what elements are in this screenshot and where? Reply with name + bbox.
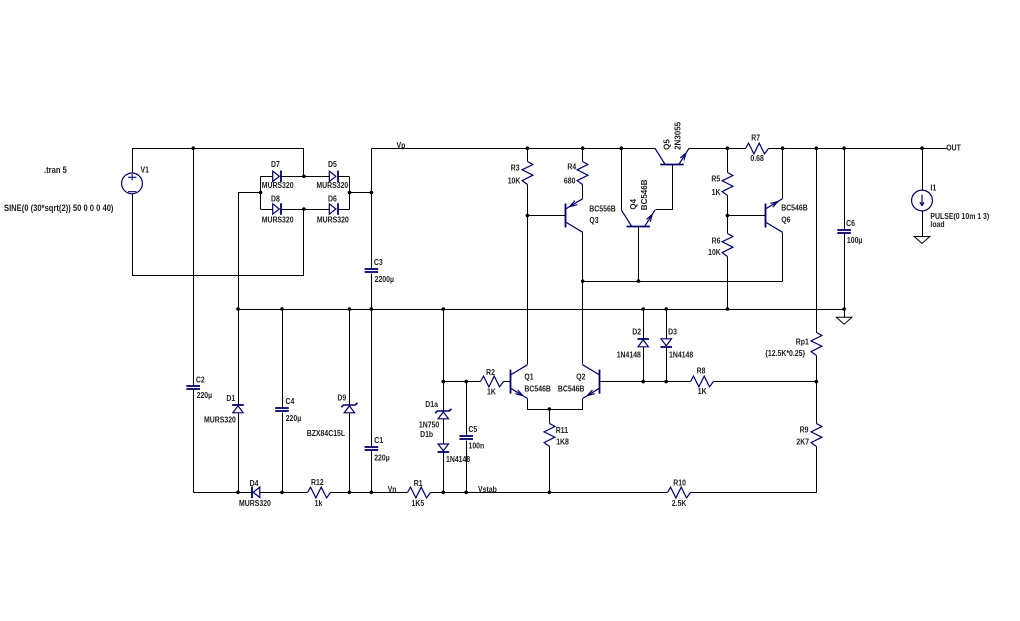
wire R9 bottom lead to bottom wire [691, 447, 817, 493]
svg-text:D6: D6 [328, 194, 337, 204]
diode D6 [329, 203, 338, 215]
diode D3 [660, 339, 672, 347]
diode D1b [438, 444, 450, 452]
wire D2 bottom lead [643, 347, 645, 382]
wire Vp vertical to C3 [371, 149, 373, 269]
capacitor C1 [365, 447, 379, 450]
junction mid rail C6 [842, 307, 846, 311]
wire D9 bottom lead [349, 414, 351, 493]
bridge left vertical [260, 177, 262, 210]
junction R5 at rail [726, 146, 730, 150]
junction mid rail D2 [641, 307, 645, 311]
svg-text:BC546B: BC546B [524, 384, 551, 394]
bridge right vertical [349, 177, 351, 210]
wire Rp1 bottom lead [816, 356, 818, 382]
svg-text:220µ: 220µ [374, 453, 390, 463]
svg-text:1K5: 1K5 [412, 498, 425, 508]
junction bridge bottom mid [302, 207, 306, 211]
wire C4 bottom lead [282, 413, 284, 493]
svg-text:100n: 100n [469, 441, 485, 451]
svg-text:1K: 1K [698, 387, 707, 397]
wire C2 top lead [193, 149, 195, 386]
transistor Q2 [583, 365, 600, 399]
wire between D1a and D1b [443, 419, 445, 445]
svg-text:220µ: 220µ [286, 414, 302, 424]
wire D1b bottom lead [443, 453, 445, 493]
bridge top rail middle segment [282, 176, 330, 178]
junction mid rail D9 [348, 307, 352, 311]
junction bottom D9 [348, 491, 352, 495]
junction Q6 base node [726, 214, 730, 218]
wire Q4 base lead [638, 227, 640, 282]
junction D2 at feedback wire [641, 380, 645, 384]
svg-text:MURS320: MURS320 [262, 215, 294, 225]
svg-text:R7: R7 [751, 133, 760, 143]
bridge top rail left segment [261, 176, 273, 178]
junction R4 at Vp rail [581, 146, 585, 150]
junction I1 at rail [920, 146, 924, 150]
diode D2 [637, 339, 649, 347]
junction mid rail C3/C1 [370, 307, 374, 311]
transistor Q6 [766, 199, 783, 233]
svg-text:Q4: Q4 [629, 198, 638, 209]
wire C5 bottom lead [466, 441, 468, 493]
wire C2 bottom lead [193, 390, 195, 493]
wire mid ground rail [239, 309, 845, 311]
resistor R4 [577, 162, 588, 185]
svg-text:load: load [930, 220, 945, 230]
wire R5 bottom lead [727, 196, 729, 216]
wire R8 to divider tap [714, 381, 817, 383]
wire bottom R1 to R10 [431, 492, 668, 494]
svg-text:1N4148: 1N4148 [617, 350, 641, 360]
svg-text:10K: 10K [708, 247, 721, 257]
resistor Rp1 [811, 333, 822, 356]
svg-text:D1a: D1a [425, 399, 438, 409]
svg-text:R6: R6 [712, 236, 721, 246]
wire Q2 base to R8 [600, 381, 691, 383]
transistor Q5 2N3055 [655, 149, 689, 165]
resistor R11 [544, 424, 555, 447]
wire Q6 base [728, 215, 766, 217]
wire bridge positive to Vp vertical [350, 192, 372, 194]
junction Q3 collector / Q2 collector [581, 279, 585, 283]
wire C1 bottom lead [371, 451, 373, 493]
wire D3 bottom lead [666, 348, 668, 382]
ground below I1 [914, 237, 930, 244]
svg-text:Q2: Q2 [576, 372, 585, 382]
svg-text:R5: R5 [711, 174, 720, 184]
wire Q4 emitter to Q5 base [656, 165, 673, 210]
junction C6 at rail [842, 146, 846, 150]
junction Q4 base [637, 279, 641, 283]
wire R6 bottom lead [727, 257, 729, 310]
svg-text:10K: 10K [508, 176, 521, 186]
wire D2 top lead [643, 310, 645, 339]
resistor R6 [722, 234, 733, 257]
junction mid rail D1 [236, 307, 240, 311]
wire Vp rail to Q5 collector [372, 148, 656, 150]
diode D4 [252, 487, 260, 499]
V1 plus sign [128, 174, 136, 180]
junction Q3 base tap [526, 214, 530, 218]
svg-text:Vn: Vn [388, 485, 397, 495]
wire bottom D4 to R12 [260, 492, 308, 494]
svg-text:BC546B: BC546B [640, 179, 649, 210]
svg-text:SINE(0 (30*sqrt(2)) 50 0 0 0 4: SINE(0 (30*sqrt(2)) 50 0 0 0 40) [4, 204, 114, 214]
svg-text:Q6: Q6 [781, 215, 790, 225]
svg-text:C1: C1 [374, 436, 383, 446]
svg-text:D7: D7 [271, 159, 280, 169]
wire C1 top lead [371, 310, 373, 447]
svg-text:D3: D3 [668, 327, 677, 337]
wire D1 bottom lead [238, 414, 240, 493]
wire reference node to R2 [444, 381, 481, 383]
wire Q4 collector lead [621, 149, 623, 210]
wire C5 top lead [466, 382, 468, 436]
voltage source V1 circle [122, 173, 143, 194]
wire R4 bottom to Q3 emitter [582, 185, 584, 199]
svg-text:D8: D8 [271, 194, 280, 204]
svg-text:D2: D2 [632, 327, 641, 337]
wire D9 top lead [349, 310, 351, 405]
svg-text:R8: R8 [697, 366, 706, 376]
resistor R10 [668, 487, 691, 498]
wire Q3 base [528, 215, 566, 217]
wire D1 top lead [238, 310, 240, 405]
svg-text:R3: R3 [511, 163, 520, 173]
svg-text:220µ: 220µ [197, 390, 213, 400]
junction divider tap [815, 380, 819, 384]
junction bottom C5 [464, 491, 468, 495]
junction emitter common node [548, 407, 552, 411]
wire R11 bottom lead [549, 447, 551, 493]
svg-text:Rp1: Rp1 [796, 337, 809, 347]
wire R6 top lead [727, 216, 729, 234]
svg-text:680: 680 [564, 176, 576, 186]
svg-text:2N3055: 2N3055 [674, 121, 683, 150]
junction D3 at feedback wire [664, 380, 668, 384]
svg-text:BC556B: BC556B [589, 204, 616, 214]
diode D7 [273, 171, 281, 183]
svg-text:C4: C4 [286, 397, 296, 407]
wire C3 to mid rail [371, 274, 373, 310]
junction mid rail C4 [280, 307, 284, 311]
wire Q6 emitter up to rail [782, 149, 784, 199]
wire R3 bottom to Q1 collector [527, 185, 529, 365]
wire I1 top lead [922, 149, 924, 191]
capacitor C6 [837, 230, 851, 233]
wire Rp1 top lead [816, 149, 818, 333]
svg-text:I1: I1 [930, 183, 936, 193]
svg-text:C5: C5 [468, 425, 477, 435]
wire I1 bottom lead [922, 211, 924, 237]
svg-text:0.68: 0.68 [750, 154, 763, 164]
junction mid rail R6 [726, 307, 730, 311]
wire C6 bottom lead [844, 234, 846, 310]
svg-text:1k: 1k [315, 498, 323, 508]
wire bottom R12 to R1 [331, 492, 408, 494]
ground at mid rail [836, 317, 852, 324]
wire C6 top lead [844, 149, 846, 230]
svg-text:{12.5K*0.25}: {12.5K*0.25} [765, 348, 805, 358]
capacitor C4 [275, 408, 289, 411]
wire R4 top lead [582, 149, 584, 162]
svg-text:MURS320: MURS320 [262, 181, 294, 191]
wire V1 top to bridge top mid [133, 149, 304, 177]
wire R3 top lead [527, 149, 529, 162]
svg-text:V1: V1 [141, 165, 149, 175]
svg-text:R11: R11 [556, 426, 568, 436]
wire zener stack top lead [443, 310, 445, 411]
junction bridge top mid [302, 175, 306, 179]
junction bottom R11 [548, 491, 552, 495]
wire Q6 collector down to darlington drive [782, 233, 784, 282]
capacitor C2 [186, 386, 200, 389]
svg-text:D4: D4 [250, 479, 260, 489]
svg-text:1K8: 1K8 [556, 437, 569, 447]
diode D1 [232, 405, 244, 413]
svg-text:R2: R2 [486, 368, 495, 378]
diode D5 [329, 171, 338, 183]
svg-text:D1b: D1b [420, 430, 433, 440]
transistor Q3 PNP [566, 199, 583, 233]
svg-text:BC546B: BC546B [781, 203, 808, 213]
junction Q4 collector at Vp rail [620, 146, 624, 150]
junction bottom D1b [442, 491, 446, 495]
svg-text:MURS320: MURS320 [317, 215, 349, 225]
wire ground stub [844, 310, 846, 318]
svg-text:2200µ: 2200µ [375, 274, 394, 284]
wire R5 top lead [727, 149, 729, 173]
zener diode D1a [435, 409, 451, 419]
wire C4 top lead [282, 310, 284, 408]
svg-text:1K: 1K [487, 387, 496, 397]
svg-text:MURS320: MURS320 [239, 498, 271, 508]
wire R11 top lead [549, 410, 551, 424]
svg-text:MURS320: MURS320 [316, 181, 348, 191]
junction mid rail zener stack [442, 307, 446, 311]
junction bottom C1 [370, 491, 374, 495]
svg-text:1K: 1K [712, 187, 721, 197]
bridge bottom rail left segment [261, 209, 273, 211]
svg-text:Q5: Q5 [663, 139, 672, 150]
resistor R7 [746, 143, 769, 154]
resistor R9 [811, 424, 822, 447]
junction bottom D1 [236, 491, 240, 495]
junction R3 at Vp rail [526, 146, 530, 150]
bridge bottom rail middle segment [282, 209, 330, 211]
junction bottom C4 [280, 491, 284, 495]
transistor Q4 [621, 210, 655, 227]
junction C2 tap on V1 wire [191, 146, 195, 150]
svg-text:MURS320: MURS320 [204, 415, 236, 425]
resistor R1 [408, 487, 431, 498]
bridge bottom rail right segment [338, 209, 350, 211]
wire Q2 collector vertical [582, 282, 584, 365]
svg-text:OUT: OUT [946, 143, 961, 153]
capacitor C5 [459, 436, 473, 439]
junction reference node at zener stack [442, 380, 446, 384]
junction Q6 emitter at rail [781, 146, 785, 150]
junction Vp vertical at bridge output [370, 191, 374, 195]
svg-text:R4: R4 [567, 162, 577, 172]
wire R7 to OUT [769, 148, 947, 150]
wire D3 top lead [666, 310, 668, 339]
junction C5 top at reference wire [464, 380, 468, 384]
junction bridge right mid [348, 191, 352, 195]
svg-text:2.5K: 2.5K [672, 498, 687, 508]
svg-text:2K7: 2K7 [796, 437, 809, 447]
zener diode D9 [341, 403, 357, 413]
svg-text:C3: C3 [374, 258, 383, 268]
current source I1 circle [912, 190, 933, 211]
diode D8 [273, 203, 281, 215]
svg-text:Q3: Q3 [589, 216, 598, 226]
wire darlington base drive [583, 281, 783, 283]
svg-text:R1: R1 [414, 479, 423, 489]
svg-text:BZX84C15L: BZX84C15L [307, 428, 346, 438]
resistor R2 [481, 376, 504, 387]
svg-text:R10: R10 [673, 478, 686, 488]
svg-text:.tran 5: .tran 5 [44, 166, 67, 176]
svg-text:R9: R9 [800, 425, 809, 435]
wire V1 bottom to bridge bottom mid [133, 194, 304, 276]
resistor R12 [308, 487, 331, 498]
wire Q3 collector down to darlington drive [582, 233, 584, 282]
svg-text:BC546B: BC546B [558, 384, 585, 394]
svg-text:100µ: 100µ [847, 235, 863, 245]
wire bottom from C2 to D4 [194, 492, 252, 494]
svg-text:Vstab: Vstab [478, 485, 497, 495]
svg-text:1N750: 1N750 [419, 420, 439, 430]
wire bridge negative to mid rail [239, 193, 261, 310]
junction bridge left mid [259, 191, 263, 195]
svg-text:D9: D9 [337, 393, 346, 403]
svg-text:D1: D1 [226, 394, 235, 404]
capacitor C3 [365, 269, 379, 272]
svg-text:D5: D5 [328, 159, 337, 169]
transistor Q1 [511, 365, 528, 399]
svg-text:R12: R12 [311, 478, 324, 488]
wire Q1 emitter to common [528, 399, 583, 410]
resistor R8 [691, 376, 714, 387]
wire Q5 emitter to R7 [689, 148, 746, 150]
I1 arrow [920, 195, 924, 206]
svg-text:C2: C2 [196, 375, 205, 385]
svg-text:Q1: Q1 [524, 372, 533, 382]
junction Rp1 at rail [815, 146, 819, 150]
resistor R5 [722, 173, 733, 196]
V1 minus sign [128, 191, 136, 193]
svg-text:C6: C6 [846, 219, 855, 229]
wire R9 top lead [816, 382, 818, 424]
resistor R3 [522, 162, 533, 185]
bridge top rail right segment [338, 176, 350, 178]
junction mid rail D3 [664, 307, 668, 311]
wire R2 to Q1 base [504, 381, 511, 383]
svg-text:1N4148: 1N4148 [669, 350, 693, 360]
